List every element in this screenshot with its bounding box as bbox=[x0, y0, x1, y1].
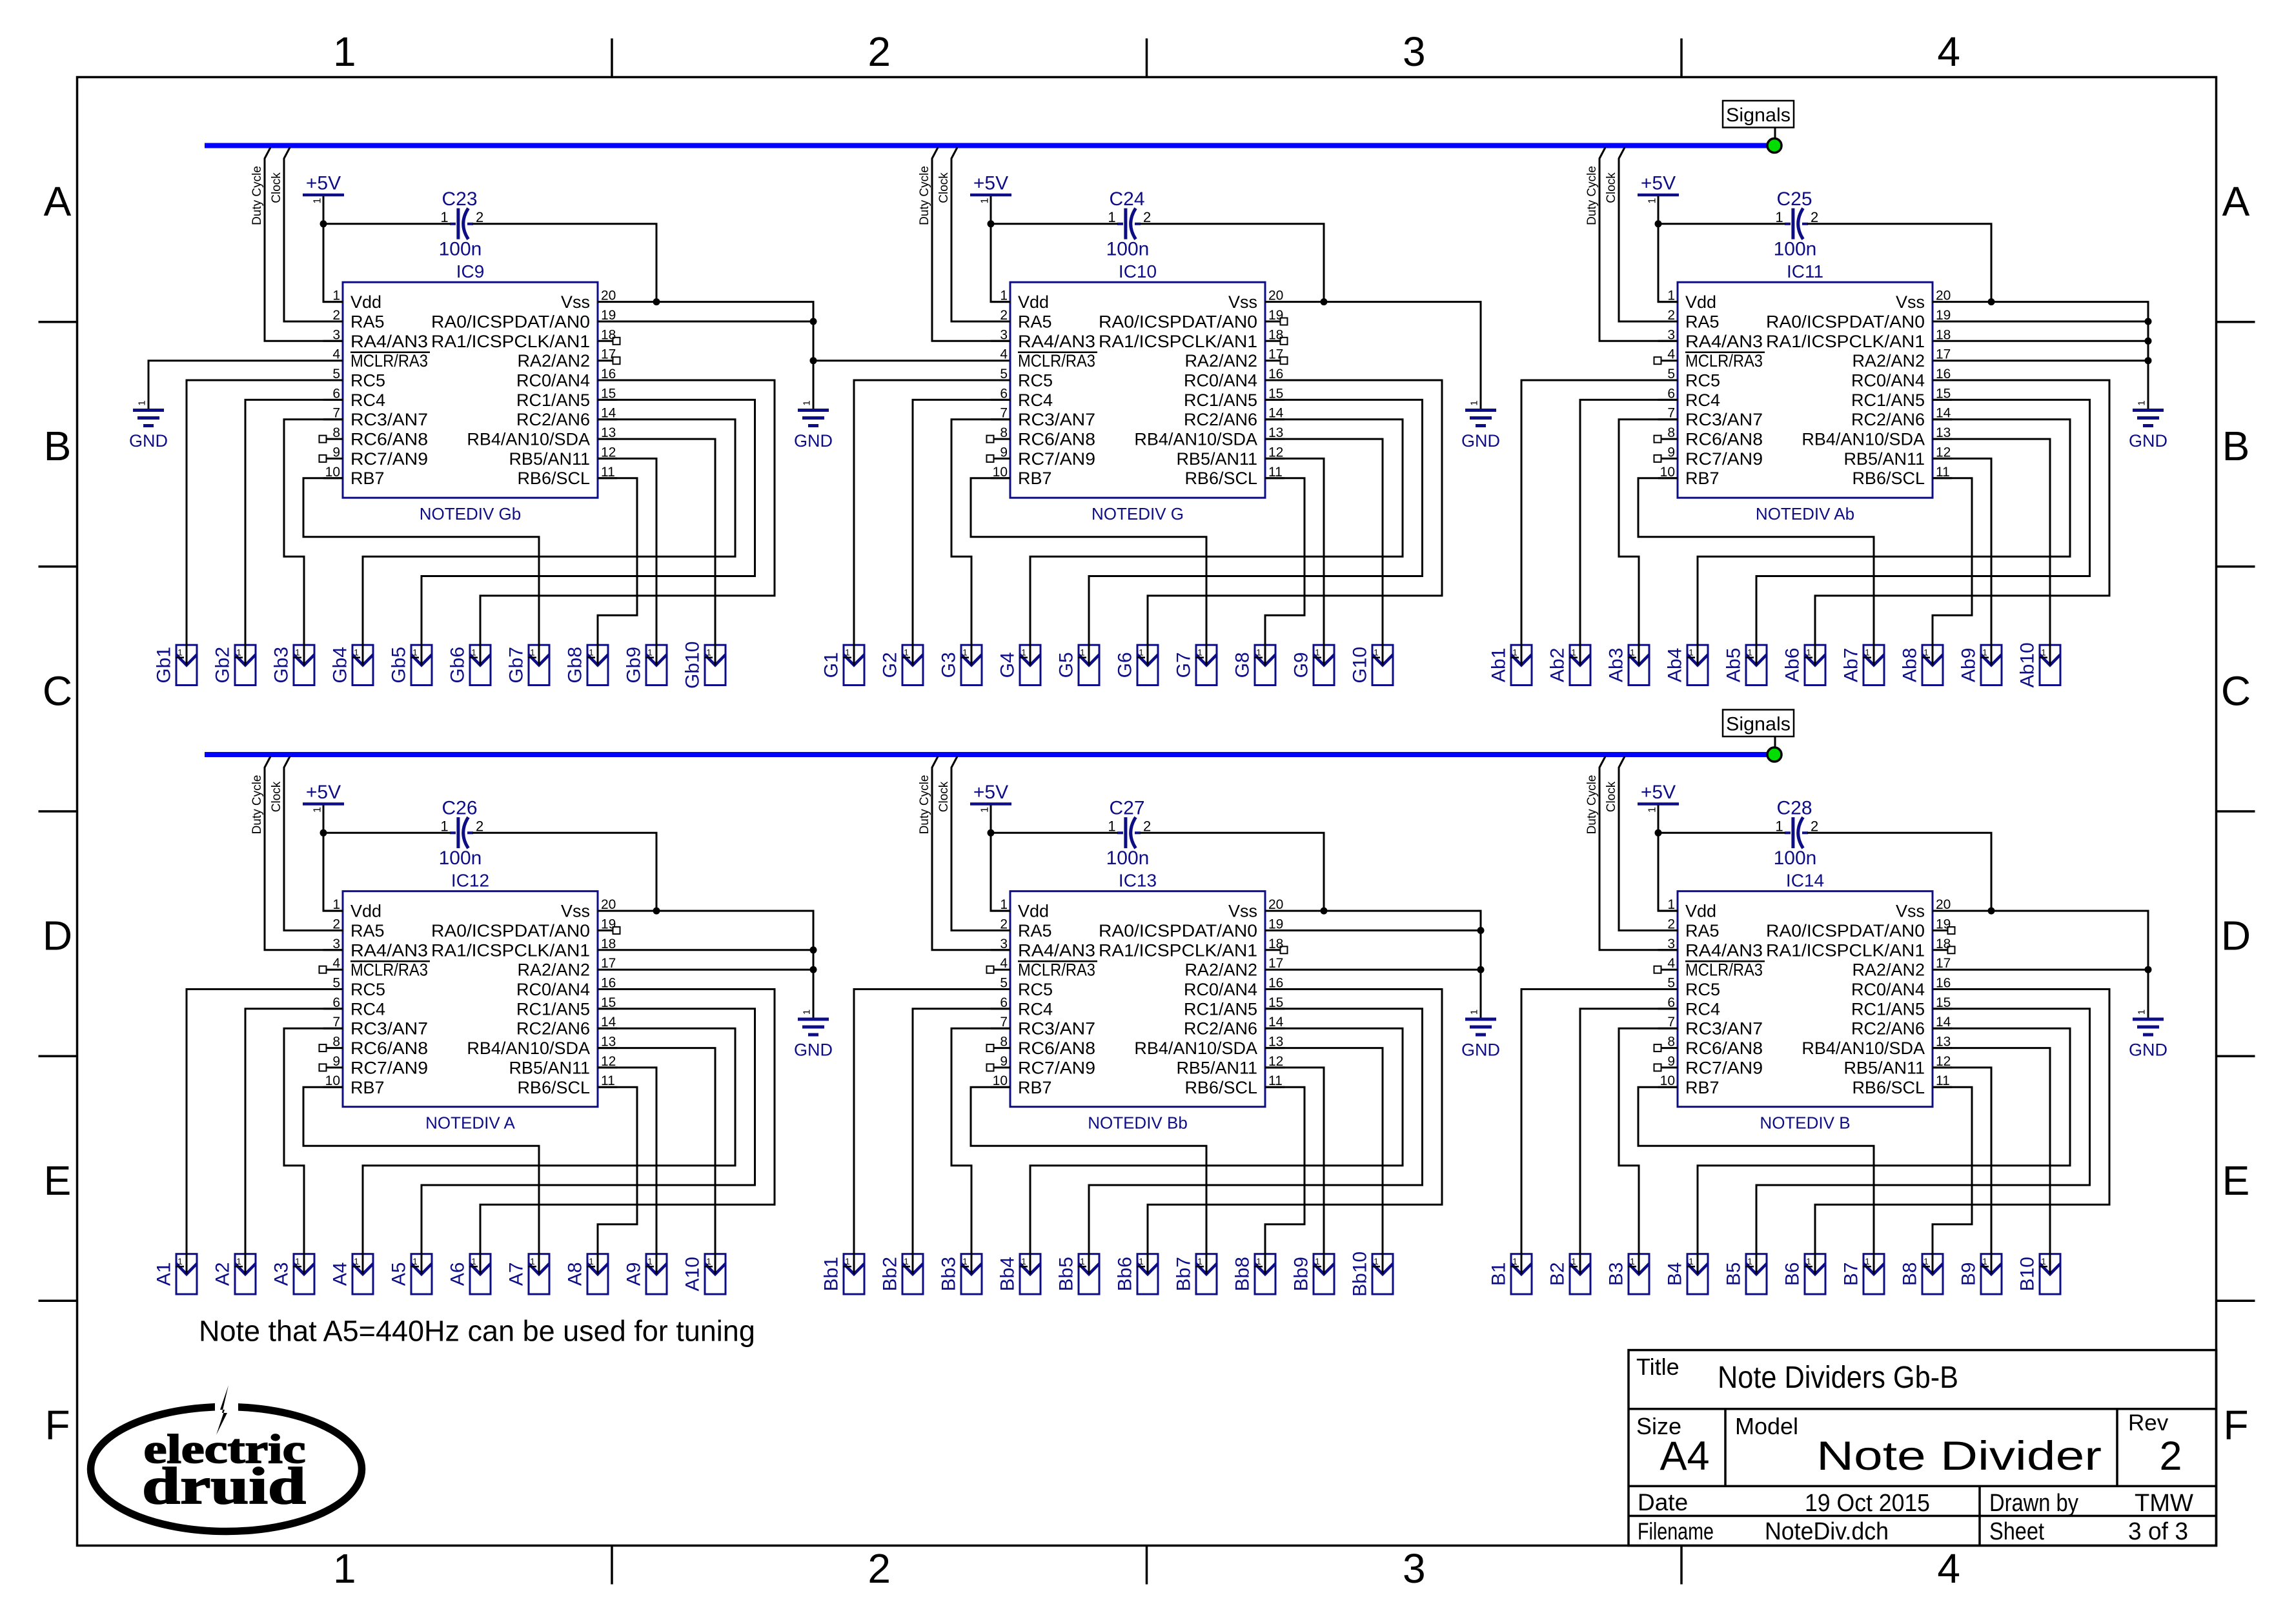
svg-text:GND: GND bbox=[129, 431, 168, 451]
IC14 pin 1 (Vdd) bbox=[1658, 897, 1716, 921]
wire +5V junction to C27 pin 1 bbox=[991, 832, 1118, 834]
svg-text:RB5/AN11: RB5/AN11 bbox=[509, 449, 590, 469]
connector pin G2 bbox=[880, 645, 924, 685]
IC9 pin 13 (RB4/AN10/SDA) bbox=[467, 425, 617, 449]
wire IC13 RC1 (pin 15) to Bb5 bbox=[1089, 1009, 1423, 1274]
wire IC13 RB7 (pin 10) to Bb7 bbox=[971, 1087, 1206, 1274]
svg-text:RB4/AN10/SDA: RB4/AN10/SDA bbox=[467, 1039, 590, 1058]
svg-text:IC11: IC11 bbox=[1787, 261, 1823, 281]
IC11 pin 14 (RC2/AN6) bbox=[1851, 406, 1952, 430]
svg-text:1: 1 bbox=[1108, 818, 1115, 834]
svg-text:GND: GND bbox=[794, 1040, 833, 1060]
svg-text:1: 1 bbox=[1512, 1257, 1517, 1266]
svg-text:Bb5: Bb5 bbox=[1056, 1257, 1077, 1291]
svg-text:RA4/AN3: RA4/AN3 bbox=[1018, 940, 1095, 960]
wire Clock drop to IC13 pin 2 bbox=[951, 756, 1010, 931]
svg-text:IC9: IC9 bbox=[456, 261, 485, 281]
svg-text:19 Oct 2015: 19 Oct 2015 bbox=[1805, 1490, 1930, 1517]
svg-text:8: 8 bbox=[1000, 425, 1008, 440]
svg-text:RC0/AN4: RC0/AN4 bbox=[516, 371, 590, 391]
IC11 pin 19 (RA0/ICSPDAT/AN0) bbox=[1766, 308, 1951, 332]
connector pin G9 bbox=[1291, 645, 1335, 685]
wire IC10 RB7 (pin 10) to G7 bbox=[971, 478, 1206, 665]
IC10 pin 10 (RB7) bbox=[991, 465, 1052, 488]
svg-text:18: 18 bbox=[1268, 937, 1283, 951]
junction pin 19 / ground rail bbox=[810, 318, 817, 325]
IC12 pin 2 (RA5) bbox=[323, 917, 385, 941]
svg-text:19: 19 bbox=[1268, 308, 1283, 323]
svg-text:9: 9 bbox=[1667, 445, 1675, 460]
wire IC14 RC0 (pin 16) to B6 bbox=[1815, 990, 2109, 1275]
svg-text:A2: A2 bbox=[212, 1262, 234, 1286]
svg-text:Duty Cycle: Duty Cycle bbox=[1585, 166, 1599, 225]
IC11 pin 15 (RC1/AN5) bbox=[1851, 386, 1952, 410]
IC10 pin 15 (RC1/AN5) bbox=[1184, 386, 1284, 410]
IC13 pin 2 (RA5) bbox=[991, 917, 1052, 941]
svg-text:B5: B5 bbox=[1723, 1262, 1745, 1286]
connector pin G6 bbox=[1115, 645, 1159, 685]
wire Clock drop to IC11 pin 2 bbox=[1619, 148, 1678, 322]
svg-text:G1: G1 bbox=[821, 652, 842, 678]
IC12 pin 11 (RB6/SCL) bbox=[517, 1073, 617, 1097]
Signals bus endpoint node row 2 bbox=[1767, 747, 1781, 762]
svg-text:RB6/SCL: RB6/SCL bbox=[1852, 1078, 1925, 1097]
connector pin A1 bbox=[154, 1254, 198, 1294]
svg-text:G4: G4 bbox=[997, 652, 1019, 678]
svg-text:Model: Model bbox=[1735, 1413, 1798, 1439]
wire IC12 RC5 (pin 5) to A1 bbox=[187, 990, 343, 1275]
svg-text:RC0/AN4: RC0/AN4 bbox=[1184, 980, 1257, 999]
IC12 pin 9 (RC7/AN9) bbox=[320, 1054, 429, 1078]
wire IC11 RC0 (pin 16) to Ab6 bbox=[1815, 380, 2109, 665]
svg-text:Signals: Signals bbox=[1726, 714, 1791, 735]
IC9 pin 9 (RC7/AN9) bbox=[320, 445, 429, 469]
IC13 pin 5 (RC5) bbox=[991, 976, 1053, 1000]
svg-text:NOTEDIV G: NOTEDIV G bbox=[1091, 504, 1184, 523]
IC12 pin 14 (RC2/AN6) bbox=[516, 1015, 617, 1039]
svg-text:1: 1 bbox=[2041, 1257, 2046, 1266]
IC12 pin 12 (RB5/AN11) bbox=[509, 1054, 617, 1078]
wire IC12 RB7 (pin 10) to A7 bbox=[303, 1087, 539, 1274]
IC12 pin 17 (RA2/AN2) bbox=[517, 956, 616, 980]
svg-text:RB6/SCL: RB6/SCL bbox=[517, 469, 590, 488]
svg-text:G3: G3 bbox=[939, 652, 960, 678]
wire IC12 RC4 (pin 6) to A2 bbox=[245, 1009, 343, 1274]
svg-text:1: 1 bbox=[1775, 818, 1783, 834]
svg-text:9: 9 bbox=[1000, 1054, 1008, 1069]
svg-text:GND: GND bbox=[1461, 431, 1500, 451]
svg-text:RA2/AN2: RA2/AN2 bbox=[1184, 960, 1257, 980]
svg-text:Title: Title bbox=[1636, 1354, 1680, 1380]
svg-text:Bb3: Bb3 bbox=[939, 1257, 960, 1291]
svg-text:B9: B9 bbox=[1958, 1262, 1980, 1286]
connector pin Ab3 bbox=[1606, 645, 1650, 685]
svg-text:A8: A8 bbox=[565, 1262, 586, 1286]
svg-text:4: 4 bbox=[1937, 28, 1960, 75]
connector pin Gb8 bbox=[565, 645, 609, 685]
junction pin 18 / ground rail bbox=[2145, 338, 2152, 345]
svg-text:8: 8 bbox=[332, 1035, 340, 1050]
svg-text:NOTEDIV Bb: NOTEDIV Bb bbox=[1088, 1113, 1188, 1133]
wire IC11 RB6/SCL (pin 11) to Ab8 bbox=[1933, 478, 1972, 665]
connector pin B3 bbox=[1606, 1254, 1650, 1294]
junction pin 17 / ground rail bbox=[2145, 357, 2152, 364]
connector pin B5 bbox=[1723, 1254, 1767, 1294]
svg-text:RA2/AN2: RA2/AN2 bbox=[1852, 960, 1925, 980]
IC12 pin 3 (RA4/AN3) bbox=[323, 937, 428, 960]
IC13 pin 8 (RC6/AN8) bbox=[987, 1035, 1096, 1059]
svg-text:1: 1 bbox=[962, 1257, 968, 1266]
svg-text:RC4: RC4 bbox=[350, 391, 385, 410]
svg-text:2: 2 bbox=[1811, 818, 1818, 834]
svg-text:1: 1 bbox=[1571, 1257, 1576, 1266]
svg-text:B6: B6 bbox=[1782, 1262, 1803, 1286]
svg-text:RB7: RB7 bbox=[1018, 1078, 1052, 1097]
wire IC9 RC5 (pin 5) to Gb1 bbox=[187, 380, 343, 665]
svg-text:RC0/AN4: RC0/AN4 bbox=[1851, 371, 1925, 391]
svg-text:RC3/AN7: RC3/AN7 bbox=[1685, 1019, 1763, 1039]
wire C25 pin 2 to Vss net bbox=[1807, 224, 1991, 302]
junction +5V / IC11 decoupling cap bbox=[1655, 220, 1662, 227]
wire IC10 RB5 (pin 12) to G9 bbox=[1265, 458, 1324, 665]
junction cap C26 / Vss wire bbox=[653, 908, 660, 915]
svg-text:17: 17 bbox=[601, 347, 616, 362]
svg-text:Clock: Clock bbox=[937, 172, 951, 203]
svg-text:1: 1 bbox=[1630, 648, 1635, 658]
svg-text:3: 3 bbox=[1403, 1545, 1426, 1592]
connector pin G10 bbox=[1350, 645, 1394, 685]
IC13 pin 15 (RC1/AN5) bbox=[1184, 995, 1284, 1019]
svg-text:Duty Cycle: Duty Cycle bbox=[1585, 775, 1599, 835]
wire IC9 RC0 (pin 16) to Gb6 bbox=[480, 380, 775, 665]
IC10 pin 11 (RB6/SCL) bbox=[1184, 465, 1284, 488]
IC14 pin 11 (RB6/SCL) bbox=[1852, 1073, 1952, 1097]
wire Clock drop to IC12 pin 2 bbox=[284, 756, 343, 931]
IC9 pin 17 (RA2/AN2) bbox=[517, 347, 620, 371]
svg-text:RB7: RB7 bbox=[350, 1078, 385, 1097]
wire Duty Cycle drop to IC9 pin 3 bbox=[265, 148, 343, 341]
IC9 pin 2 (RA5) bbox=[323, 308, 385, 332]
wire +5V junction to C25 pin 1 bbox=[1658, 223, 1785, 225]
svg-text:1: 1 bbox=[1139, 1257, 1144, 1266]
IC14 pin 16 (RC0/AN4) bbox=[1851, 976, 1952, 1000]
wire IC11 pin 19 to ground rail bbox=[1933, 321, 2148, 323]
IC14 pin 7 (RC3/AN7) bbox=[1658, 1015, 1763, 1039]
connector pin A6 bbox=[447, 1254, 491, 1294]
junction cap C27 / Vss wire bbox=[1321, 908, 1328, 915]
svg-text:1: 1 bbox=[295, 648, 300, 658]
junction +5V / IC13 decoupling cap bbox=[988, 829, 995, 837]
IC9 pin 14 (RC2/AN6) bbox=[516, 406, 617, 430]
svg-text:1: 1 bbox=[178, 648, 183, 658]
svg-text:1: 1 bbox=[1747, 1257, 1752, 1266]
IC12 pin 19 (RA0/ICSPDAT/AN0) bbox=[431, 917, 620, 941]
IC11 pin 16 (RC0/AN4) bbox=[1851, 367, 1952, 391]
IC12 pin 16 (RC0/AN4) bbox=[516, 976, 617, 1000]
svg-text:RC6/AN8: RC6/AN8 bbox=[1018, 1039, 1095, 1058]
wire C28 pin 2 to Vss net bbox=[1807, 833, 1991, 911]
connector pin B10 bbox=[2017, 1254, 2061, 1294]
svg-text:IC13: IC13 bbox=[1119, 871, 1157, 891]
svg-text:F: F bbox=[45, 1402, 70, 1448]
capacitor C24 100n bbox=[1106, 188, 1152, 260]
connector pin A3 bbox=[271, 1254, 315, 1294]
IC14 pin 9 (RC7/AN9) bbox=[1654, 1054, 1763, 1078]
svg-text:+5V: +5V bbox=[306, 173, 341, 194]
svg-text:G6: G6 bbox=[1115, 652, 1136, 678]
svg-text:1: 1 bbox=[904, 648, 909, 658]
svg-text:MCLR/RA3: MCLR/RA3 bbox=[1685, 351, 1763, 370]
border tick right 5 bbox=[2217, 1300, 2255, 1303]
svg-text:Rev: Rev bbox=[2128, 1410, 2169, 1436]
wire IC14 RB5 (pin 12) to B9 bbox=[1933, 1068, 1991, 1274]
wire IC13 pin 17 to ground rail bbox=[1265, 969, 1481, 971]
wire IC9 RB7 (pin 10) to Gb7 bbox=[303, 478, 539, 665]
border tick right 3 bbox=[2217, 810, 2255, 813]
svg-text:1: 1 bbox=[1924, 648, 1929, 658]
IC12 pin 10 (RB7) bbox=[323, 1073, 385, 1097]
wire IC9 RB4 (pin 13) to Gb10 bbox=[598, 439, 715, 665]
svg-text:1: 1 bbox=[706, 648, 711, 658]
IC12 pin 18 (RA1/ICSPCLK/AN1) bbox=[431, 937, 616, 960]
svg-text:RC5: RC5 bbox=[1685, 371, 1720, 391]
svg-text:Vss: Vss bbox=[561, 292, 590, 312]
connector pin B8 bbox=[1900, 1254, 1944, 1294]
IC11 pin 4 (MCLR/RA3) bbox=[1654, 347, 1765, 371]
svg-text:1: 1 bbox=[706, 1257, 711, 1266]
svg-text:C24: C24 bbox=[1109, 188, 1144, 210]
junction cap C28 / Vss wire bbox=[1988, 908, 1995, 915]
svg-text:1: 1 bbox=[1571, 648, 1576, 658]
IC12 pin 4 (MCLR/RA3) bbox=[320, 956, 431, 980]
IC11 pin 8 (RC6/AN8) bbox=[1654, 425, 1763, 449]
svg-text:1: 1 bbox=[1256, 1257, 1261, 1266]
IC14 pin 13 (RB4/AN10/SDA) bbox=[1802, 1035, 1952, 1059]
svg-text:RA1/ICSPCLK/AN1: RA1/ICSPCLK/AN1 bbox=[1766, 940, 1925, 960]
border tick right 4 bbox=[2217, 1055, 2255, 1057]
svg-text:RA5: RA5 bbox=[350, 312, 385, 332]
svg-text:Gb4: Gb4 bbox=[330, 647, 351, 684]
svg-text:8: 8 bbox=[332, 425, 340, 440]
wire Duty Cycle drop to IC14 pin 3 bbox=[1599, 756, 1678, 950]
svg-text:+5V: +5V bbox=[973, 173, 1008, 194]
IC9 pin 6 (RC4) bbox=[323, 386, 385, 410]
svg-text:1: 1 bbox=[1021, 648, 1026, 658]
IC11 pin 17 (RA2/AN2) bbox=[1852, 347, 1951, 371]
IC13 pin 4 (MCLR/RA3) bbox=[987, 956, 1098, 980]
IC9 pin 10 (RB7) bbox=[323, 465, 385, 488]
IC10 pin 20 (Vss) bbox=[1228, 289, 1283, 312]
svg-text:Note Dividers Gb-B: Note Dividers Gb-B bbox=[1718, 1361, 1958, 1395]
svg-text:1: 1 bbox=[440, 209, 448, 225]
svg-text:Bb7: Bb7 bbox=[1173, 1257, 1195, 1291]
svg-text:RA2/AN2: RA2/AN2 bbox=[517, 960, 590, 980]
svg-text:C: C bbox=[43, 667, 72, 714]
wire IC9 RC4 (pin 6) to Gb2 bbox=[245, 400, 343, 665]
wire IC11 pin 20 (Vss) to ground rail bbox=[1933, 302, 2148, 411]
wire IC11 RC3 (pin 7) to Ab3 bbox=[1619, 420, 1678, 665]
capacitor C26 100n bbox=[439, 798, 484, 869]
svg-text:3: 3 bbox=[1403, 28, 1426, 75]
svg-text:RC6/AN8: RC6/AN8 bbox=[350, 1039, 428, 1058]
svg-text:1: 1 bbox=[440, 818, 448, 834]
connector pin Ab9 bbox=[1958, 645, 2002, 685]
wire Duty Cycle drop to IC11 pin 3 bbox=[1599, 148, 1678, 341]
power +5V for IC9 bbox=[303, 173, 344, 204]
svg-text:RB7: RB7 bbox=[350, 469, 385, 488]
IC10 pin 7 (RC3/AN7) bbox=[991, 406, 1095, 430]
connector pin Gb3 bbox=[271, 645, 315, 685]
wire IC10 RB6/SCL (pin 11) to G8 bbox=[1265, 478, 1304, 665]
wire IC9 RB5 (pin 12) to Gb9 bbox=[598, 458, 656, 665]
connector pin B9 bbox=[1958, 1254, 2002, 1294]
svg-text:NOTEDIV B: NOTEDIV B bbox=[1760, 1113, 1850, 1133]
IC14 pin 2 (RA5) bbox=[1658, 917, 1720, 941]
svg-text:E: E bbox=[2222, 1157, 2250, 1204]
svg-text:Bb4: Bb4 bbox=[997, 1257, 1019, 1291]
svg-text:B: B bbox=[44, 423, 72, 469]
svg-text:D: D bbox=[43, 913, 72, 959]
wire IC12 RB6/SCL (pin 11) to A8 bbox=[598, 1087, 637, 1274]
svg-text:B7: B7 bbox=[1841, 1262, 1862, 1286]
IC14 pin 6 (RC4) bbox=[1658, 995, 1720, 1019]
IC11 pin 20 (Vss) bbox=[1896, 289, 1951, 312]
wire IC14 RB7 (pin 10) to B7 bbox=[1638, 1087, 1874, 1274]
border tick left 3 bbox=[39, 810, 77, 813]
svg-text:1: 1 bbox=[1256, 648, 1261, 658]
svg-text:RC0/AN4: RC0/AN4 bbox=[1851, 980, 1925, 999]
svg-text:MCLR/RA3: MCLR/RA3 bbox=[350, 351, 428, 370]
border tick bottom 1 bbox=[611, 1546, 613, 1585]
connector pin G8 bbox=[1232, 645, 1276, 685]
wire IC14 pin 20 (Vss) to ground rail bbox=[1933, 911, 2148, 1019]
IC11 pin 2 (RA5) bbox=[1658, 308, 1720, 332]
IC12 pin 1 (Vdd) bbox=[323, 897, 381, 921]
svg-text:1: 1 bbox=[1315, 648, 1320, 658]
IC12 pin 6 (RC4) bbox=[323, 995, 385, 1019]
ground at IC9 MCLR bbox=[129, 400, 168, 451]
svg-text:RA1/ICSPCLK/AN1: RA1/ICSPCLK/AN1 bbox=[431, 332, 590, 351]
svg-text:Ab8: Ab8 bbox=[1900, 648, 1921, 682]
svg-text:Gb7: Gb7 bbox=[506, 647, 527, 684]
svg-text:+5V: +5V bbox=[306, 782, 341, 803]
junction pin 17 / ground rail bbox=[810, 966, 817, 973]
IC11 pin 12 (RB5/AN11) bbox=[1843, 445, 1952, 469]
svg-text:1: 1 bbox=[354, 648, 359, 658]
svg-text:100n: 100n bbox=[1774, 239, 1817, 260]
junction +5V / IC9 decoupling cap bbox=[320, 220, 327, 227]
svg-text:4: 4 bbox=[332, 956, 340, 971]
IC11 pin 13 (RB4/AN10/SDA) bbox=[1802, 425, 1952, 449]
connector pin Ab1 bbox=[1488, 645, 1532, 685]
power +5V for IC14 bbox=[1638, 782, 1679, 813]
svg-text:RC7/AN9: RC7/AN9 bbox=[1018, 1058, 1095, 1077]
IC11 pin 7 (RC3/AN7) bbox=[1658, 406, 1763, 430]
svg-text:8: 8 bbox=[1000, 1035, 1008, 1050]
connector pin Ab8 bbox=[1900, 645, 1944, 685]
svg-text:TMW: TMW bbox=[2135, 1490, 2193, 1517]
svg-text:9: 9 bbox=[332, 1054, 340, 1069]
connector pin B4 bbox=[1665, 1254, 1709, 1294]
svg-text:MCLR/RA3: MCLR/RA3 bbox=[350, 960, 428, 980]
junction pin 19 / ground rail bbox=[2145, 318, 2152, 325]
wire IC9 RC3 (pin 7) to Gb3 bbox=[284, 420, 343, 665]
wire +5V junction to C26 pin 1 bbox=[323, 832, 451, 834]
svg-text:RC2/AN6: RC2/AN6 bbox=[1184, 1019, 1257, 1039]
svg-text:Duty Cycle: Duty Cycle bbox=[250, 166, 264, 225]
svg-text:RC3/AN7: RC3/AN7 bbox=[350, 1019, 428, 1039]
IC13 pin 17 (RA2/AN2) bbox=[1184, 956, 1283, 980]
svg-text:1: 1 bbox=[1139, 648, 1144, 658]
svg-text:B4: B4 bbox=[1665, 1262, 1686, 1286]
svg-text:1: 1 bbox=[1469, 400, 1480, 405]
svg-text:1: 1 bbox=[236, 1257, 241, 1266]
svg-text:1: 1 bbox=[2137, 1010, 2147, 1015]
svg-text:RA0/ICSPDAT/AN0: RA0/ICSPDAT/AN0 bbox=[431, 921, 590, 940]
power +5V for IC10 bbox=[970, 173, 1011, 204]
svg-text:1: 1 bbox=[1080, 1257, 1085, 1266]
svg-text:Bb9: Bb9 bbox=[1291, 1257, 1312, 1291]
IC9 pin 12 (RB5/AN11) bbox=[509, 445, 617, 469]
svg-text:Sheet: Sheet bbox=[1989, 1518, 2044, 1545]
wire IC10 RC1 (pin 15) to G5 bbox=[1089, 400, 1423, 665]
IC14 pin 10 (RB7) bbox=[1658, 1073, 1720, 1097]
connector pin Bb2 bbox=[880, 1254, 924, 1294]
IC10 pin 4 (MCLR/RA3) bbox=[1000, 347, 1097, 371]
wire Clock drop to IC14 pin 2 bbox=[1619, 756, 1678, 931]
svg-text:RA5: RA5 bbox=[1018, 312, 1052, 332]
border tick left 5 bbox=[39, 1300, 77, 1303]
wire C26 pin 2 to Vss net bbox=[472, 833, 656, 911]
svg-text:4: 4 bbox=[1000, 956, 1008, 971]
svg-text:18: 18 bbox=[601, 327, 616, 342]
svg-text:1: 1 bbox=[1747, 648, 1752, 658]
svg-text:RC4: RC4 bbox=[1685, 391, 1720, 410]
wire +5V to IC10 pin 1 (Vdd) bbox=[991, 196, 1010, 302]
connector pin Bb1 bbox=[821, 1254, 865, 1294]
IC13 pin 19 (RA0/ICSPDAT/AN0) bbox=[1099, 917, 1283, 941]
svg-text:1: 1 bbox=[980, 807, 991, 813]
svg-text:Ab4: Ab4 bbox=[1665, 648, 1686, 682]
wire IC12 RB4 (pin 13) to A10 bbox=[598, 1048, 715, 1274]
svg-text:1: 1 bbox=[1080, 648, 1085, 658]
connector pin G4 bbox=[997, 645, 1041, 685]
svg-text:2: 2 bbox=[2159, 1434, 2182, 1479]
IC10 pin 3 (RA4/AN3) bbox=[991, 327, 1095, 351]
junction +5V / IC14 decoupling cap bbox=[1655, 829, 1662, 837]
svg-text:100n: 100n bbox=[1106, 239, 1150, 260]
wire IC11 pin 17 to ground rail bbox=[1933, 360, 2148, 361]
svg-text:RA1/ICSPCLK/AN1: RA1/ICSPCLK/AN1 bbox=[1099, 332, 1257, 351]
IC10 pin 8 (RC6/AN8) bbox=[987, 425, 1096, 449]
svg-text:RC2/AN6: RC2/AN6 bbox=[516, 410, 590, 429]
connector pin Gb2 bbox=[212, 645, 256, 685]
wire IC13 RB5 (pin 12) to Bb9 bbox=[1265, 1068, 1324, 1274]
border tick right 1 bbox=[2217, 321, 2255, 323]
wire IC13 RC2 (pin 14) to Bb4 bbox=[1030, 1028, 1403, 1274]
IC10 pin 12 (RB5/AN11) bbox=[1176, 445, 1284, 469]
svg-text:1: 1 bbox=[845, 1257, 850, 1266]
border tick left 4 bbox=[39, 1055, 77, 1057]
svg-text:F: F bbox=[2223, 1402, 2248, 1448]
svg-text:Gb3: Gb3 bbox=[271, 647, 292, 684]
wire IC10 RC5 (pin 5) to G1 bbox=[854, 380, 1010, 665]
svg-text:1: 1 bbox=[412, 1257, 418, 1266]
connector pin Bb9 bbox=[1291, 1254, 1335, 1294]
svg-text:Gb1: Gb1 bbox=[154, 647, 175, 684]
connector pin Gb9 bbox=[624, 645, 667, 685]
svg-text:9: 9 bbox=[1667, 1054, 1675, 1069]
